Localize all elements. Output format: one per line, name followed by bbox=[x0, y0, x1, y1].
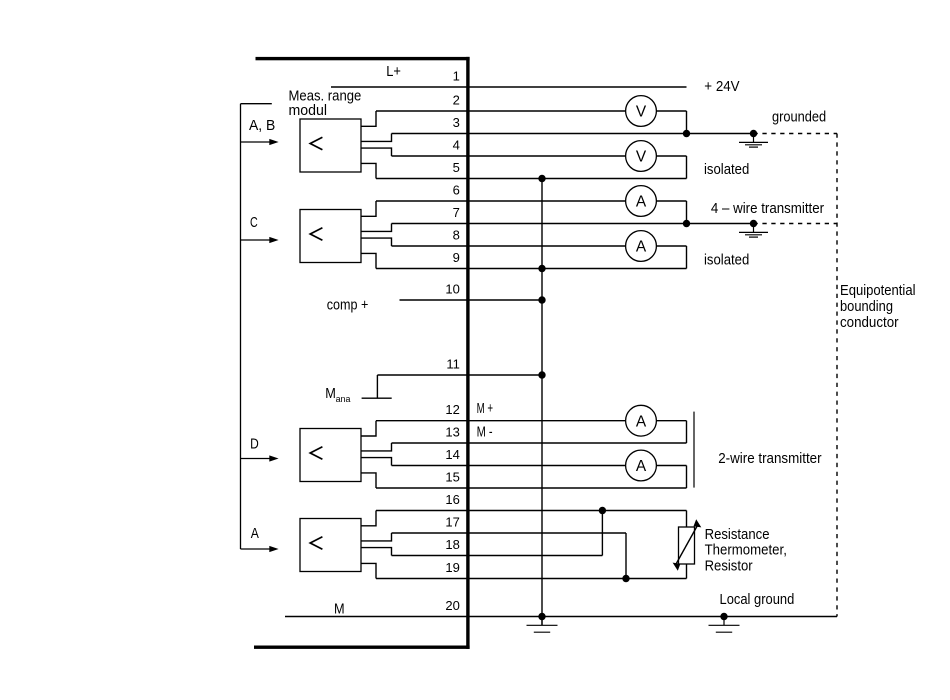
wire A3 to loop bbox=[656, 420, 686, 422]
wire 17-19 connector bbox=[625, 533, 627, 579]
svg-text:4: 4 bbox=[453, 138, 460, 153]
wire terminal 12 to A3 bbox=[376, 420, 626, 422]
wire terminal 11 Mana bbox=[377, 374, 542, 376]
svg-text:A: A bbox=[636, 239, 647, 256]
meas. range module box U4 bbox=[300, 519, 361, 572]
wire A3 loop down bbox=[686, 421, 688, 443]
svg-text:20: 20 bbox=[445, 598, 459, 613]
meter P2 (V) bbox=[626, 141, 657, 172]
svg-text:14: 14 bbox=[445, 447, 459, 462]
svg-text:L+: L+ bbox=[386, 63, 401, 80]
svg-text:M: M bbox=[325, 385, 336, 402]
svg-text:18: 18 bbox=[445, 537, 459, 552]
wire A4 loop down bbox=[686, 466, 688, 489]
wire terminal 2 to V1 bbox=[376, 110, 626, 112]
svg-text:grounded: grounded bbox=[772, 109, 826, 126]
svg-text:Resistor: Resistor bbox=[705, 558, 753, 575]
node grounded node bbox=[750, 130, 757, 137]
meas. range module box U1 bbox=[300, 119, 361, 172]
meter P1 (V) bbox=[626, 96, 657, 127]
svg-text:A: A bbox=[636, 458, 647, 475]
node line16 tap bbox=[599, 507, 606, 514]
wire terminal 4 to V2 bbox=[392, 155, 626, 157]
wire terminal 3 to grounded node bbox=[392, 133, 754, 135]
meas. range module box U3 bbox=[300, 429, 361, 482]
node bus comp+ line10 bbox=[538, 296, 545, 303]
svg-text:conductor: conductor bbox=[840, 314, 899, 331]
wire terminal 19 to resistor bbox=[376, 578, 687, 580]
wire A1 to loop bbox=[656, 200, 686, 202]
node A1-gnd junction bbox=[683, 220, 690, 227]
svg-text:4 – wire transmitter: 4 – wire transmitter bbox=[711, 200, 824, 217]
svg-text:M -: M - bbox=[477, 424, 493, 441]
svg-text:7: 7 bbox=[453, 205, 460, 220]
svg-text:10: 10 bbox=[445, 282, 459, 297]
wire V1 to loop bbox=[656, 110, 686, 112]
svg-text:M: M bbox=[334, 601, 345, 618]
svg-text:+ 24V: + 24V bbox=[704, 78, 739, 95]
svg-text:A: A bbox=[636, 194, 647, 211]
wire terminal 18 sense bbox=[392, 555, 603, 557]
svg-text:ana: ana bbox=[336, 394, 351, 405]
svg-text:Equipotential: Equipotential bbox=[840, 282, 916, 299]
svg-text:16: 16 bbox=[445, 492, 459, 507]
svg-text:6: 6 bbox=[453, 183, 460, 198]
svg-text:isolated: isolated bbox=[704, 161, 749, 178]
svg-text:isolated: isolated bbox=[704, 252, 749, 269]
wire equipotential bonding conductor bbox=[836, 134, 838, 617]
wire M analog bus bbox=[541, 179, 543, 626]
svg-text:A: A bbox=[636, 413, 647, 430]
svg-text:V: V bbox=[636, 149, 647, 166]
wire terminal 16 to resistor bbox=[376, 510, 687, 512]
wire V2 to loop bbox=[656, 155, 686, 157]
node bus Mana line11 bbox=[538, 371, 545, 378]
wire V1 loop down bbox=[686, 111, 688, 134]
svg-text:13: 13 bbox=[445, 425, 459, 440]
svg-text:12: 12 bbox=[445, 402, 459, 417]
node local ground node bbox=[720, 613, 727, 620]
wire A2 to loop bbox=[656, 245, 686, 247]
resistor RT (resistance thermometer) bbox=[673, 519, 702, 571]
wire terminal 1 (L+) to +24V bbox=[331, 86, 687, 88]
ground G4 local ground bbox=[709, 617, 740, 633]
wire terminal 9 return bbox=[376, 268, 687, 270]
wire terminal 6 to A1 bbox=[376, 200, 626, 202]
meter P6 (A) bbox=[626, 450, 657, 481]
node line19 tap bbox=[622, 575, 629, 582]
meas. range module box U2 bbox=[300, 210, 361, 263]
module outline top edge bbox=[256, 57, 470, 60]
svg-text:C: C bbox=[250, 214, 258, 231]
wire channel bracket top bbox=[241, 103, 272, 105]
node bus top line5 bbox=[538, 175, 545, 182]
wire resistor bottom feed bbox=[686, 564, 688, 579]
wires U2 stubs to terminals bbox=[361, 201, 392, 269]
wire terminal 8 to A2 bbox=[392, 245, 626, 247]
wire terminal 14 to A4 bbox=[392, 465, 626, 467]
wire terminal 10 comp+ bbox=[400, 299, 543, 301]
svg-text:A: A bbox=[251, 525, 259, 542]
arrow channel A bbox=[241, 546, 279, 552]
arrow channel C bbox=[241, 237, 279, 243]
wire terminal 7 to 4-wire ground bbox=[392, 223, 754, 225]
svg-text:2: 2 bbox=[453, 93, 460, 108]
wire terminal 15 return bbox=[376, 487, 687, 489]
module outline right edge bbox=[466, 57, 469, 649]
svg-text:11: 11 bbox=[446, 357, 460, 372]
wire A4 to loop bbox=[656, 465, 686, 467]
module outline bottom edge bbox=[254, 646, 470, 649]
wires U1 stubs to terminals bbox=[361, 111, 392, 179]
arrow channel A,B bbox=[241, 139, 279, 145]
wire A1 loop down bbox=[686, 201, 688, 224]
svg-text:2-wire transmitter: 2-wire transmitter bbox=[718, 450, 821, 467]
wire 16-18 connector bbox=[601, 511, 603, 556]
wire terminal 13 return bbox=[392, 442, 687, 444]
svg-text:19: 19 bbox=[445, 560, 459, 575]
node V1-gnd junction bbox=[683, 130, 690, 137]
svg-text:15: 15 bbox=[445, 470, 459, 485]
ground G2 4-wire (earth) bbox=[739, 224, 768, 238]
node 4wire ground node bbox=[750, 220, 757, 227]
ground G1 grounded (earth) bbox=[739, 134, 768, 148]
wires U4 stubs to terminals bbox=[361, 511, 392, 579]
wire terminal 20 (M) ground rail bbox=[285, 616, 837, 618]
node bus local line20 bbox=[538, 613, 545, 620]
wire terminal 5 return bbox=[376, 178, 687, 180]
meter P5 (A) bbox=[626, 405, 657, 436]
2-wire transmitter bracket bbox=[693, 412, 695, 488]
svg-text:bounding: bounding bbox=[840, 298, 893, 315]
svg-text:Thermometer,: Thermometer, bbox=[705, 542, 787, 559]
wire terminal 3 dashed to equipotential bbox=[754, 133, 838, 135]
arrow channel D bbox=[241, 455, 279, 461]
svg-text:5: 5 bbox=[453, 160, 460, 175]
svg-text:Resistance: Resistance bbox=[705, 526, 770, 543]
node bus line9 bbox=[538, 265, 545, 272]
meter P4 (A) bbox=[626, 231, 657, 262]
wire V2 loop down bbox=[686, 156, 688, 179]
wire Mana stub bbox=[362, 375, 392, 398]
wire terminal 7 dashed to equipotential bbox=[754, 223, 838, 225]
svg-text:A, B: A, B bbox=[249, 117, 275, 134]
wires U3 stubs to terminals bbox=[361, 421, 392, 488]
wire channel bracket vertical bbox=[240, 104, 242, 549]
svg-text:D: D bbox=[250, 435, 259, 452]
ground G3 bus ground bbox=[527, 617, 558, 633]
wire terminal 17 sense bbox=[392, 532, 627, 534]
svg-text:V: V bbox=[636, 104, 647, 121]
meter P3 (A) bbox=[626, 186, 657, 217]
svg-text:9: 9 bbox=[453, 250, 460, 265]
svg-text:modul: modul bbox=[289, 102, 328, 119]
svg-text:Local ground: Local ground bbox=[720, 591, 795, 608]
svg-text:comp +: comp + bbox=[327, 297, 369, 314]
svg-text:8: 8 bbox=[453, 228, 460, 243]
wire resistor top feed bbox=[686, 511, 688, 528]
wire A2 loop down bbox=[686, 246, 688, 269]
svg-text:17: 17 bbox=[445, 515, 459, 530]
svg-text:1: 1 bbox=[453, 69, 460, 84]
svg-text:3: 3 bbox=[453, 115, 460, 130]
svg-text:M +: M + bbox=[477, 400, 494, 417]
